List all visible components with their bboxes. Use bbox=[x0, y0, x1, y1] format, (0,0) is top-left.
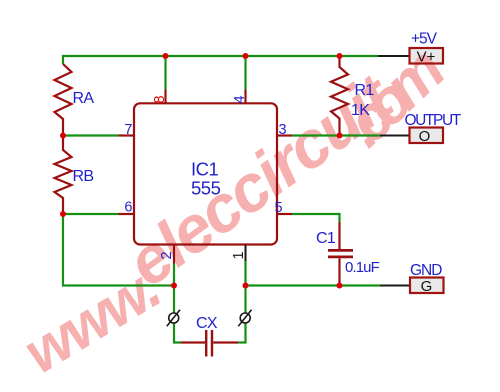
wire top rail V+ bbox=[63, 55, 378, 57]
IC U1 (IC1 555) body bbox=[134, 103, 277, 244]
svg-text:R1: R1 bbox=[355, 82, 375, 99]
junction RB pin6 bbox=[60, 211, 66, 217]
terminal V+ box bbox=[410, 48, 444, 66]
svg-text:O: O bbox=[419, 128, 431, 145]
resistor RA bbox=[55, 64, 72, 136]
svg-text:1: 1 bbox=[231, 251, 247, 259]
wire pin3 to R1 junction bbox=[292, 134, 380, 136]
watermark www.eleccircuit.com bbox=[12, 35, 457, 386]
svg-text:8: 8 bbox=[152, 95, 168, 103]
wire ground row bbox=[246, 284, 381, 286]
svg-text:IC1: IC1 bbox=[191, 159, 219, 180]
capacitor CX bbox=[181, 330, 238, 357]
terminal V+ box fill bbox=[410, 48, 444, 64]
pin 8 stub bbox=[164, 90, 166, 104]
pin 2 stub bbox=[173, 245, 175, 264]
wire pin2 column below terminal to CX bbox=[174, 323, 181, 343]
junction RA RB pin7 bbox=[60, 133, 66, 139]
wire left column bottom (RB to pin6 row corner) bbox=[63, 214, 174, 286]
pin 3 stub bbox=[277, 134, 292, 136]
svg-text:7: 7 bbox=[124, 122, 132, 138]
wire pin8 column bbox=[164, 55, 166, 90]
svg-text:OUTPUT: OUTPUT bbox=[405, 112, 462, 129]
junction top rail R1 bbox=[337, 53, 343, 59]
svg-text:CX: CX bbox=[196, 315, 218, 332]
svg-text:555: 555 bbox=[191, 178, 221, 199]
svg-text:6: 6 bbox=[124, 200, 132, 216]
svg-text:RA: RA bbox=[73, 90, 95, 107]
svg-text:2: 2 bbox=[159, 251, 175, 259]
junction top rail pin4 bbox=[243, 53, 249, 59]
wire pin1 column below terminal to CX bbox=[238, 323, 246, 343]
pin 1 stub (black) bbox=[245, 245, 247, 262]
wire pin7 to left column bbox=[63, 134, 119, 136]
wire pin6 to left column bbox=[63, 213, 119, 215]
terminal O box (OUTPUT) bbox=[410, 128, 444, 146]
svg-text:V+: V+ bbox=[417, 49, 436, 66]
wire pin2 column down bbox=[173, 264, 175, 314]
svg-text:RB: RB bbox=[73, 168, 94, 185]
junction R1 output bbox=[337, 133, 343, 139]
wire ground black segment bbox=[380, 285, 410, 287]
svg-text:4: 4 bbox=[232, 95, 248, 103]
terminal G box (GND) bbox=[410, 278, 444, 296]
svg-text:+5V: +5V bbox=[411, 31, 438, 48]
junction top rail pin8 bbox=[163, 53, 169, 59]
pin 5 stub bbox=[277, 213, 292, 215]
pin 4 stub bbox=[244, 90, 246, 104]
svg-text:3: 3 bbox=[279, 122, 287, 138]
wire pin5 to C1 column bbox=[292, 214, 340, 222]
svg-text:0.1uF: 0.1uF bbox=[345, 259, 380, 276]
resistor R1 bbox=[331, 55, 348, 136]
junction pin2 column bbox=[171, 283, 177, 289]
resistor RB bbox=[55, 136, 72, 215]
wire top rail black segment to V+ terminal bbox=[378, 55, 410, 57]
wire output black segment bbox=[380, 135, 410, 137]
terminal O box fill bbox=[410, 128, 444, 144]
svg-text:1K: 1K bbox=[351, 102, 370, 119]
junction pin1 column bbox=[243, 283, 249, 289]
connector terminal left (slashed circle) bbox=[167, 310, 180, 326]
connector terminal right (slashed circle) bbox=[238, 310, 251, 326]
pin 6 stub bbox=[119, 213, 135, 215]
svg-text:C1: C1 bbox=[316, 230, 336, 247]
capacitor C1 bbox=[328, 222, 353, 286]
wire left column top (rail to RA) bbox=[62, 55, 64, 64]
svg-text:5: 5 bbox=[275, 200, 283, 216]
svg-text:G: G bbox=[421, 278, 433, 295]
svg-text:GND: GND bbox=[410, 262, 442, 279]
junction C1 ground bbox=[337, 283, 343, 289]
pin 7 stub bbox=[119, 134, 135, 136]
wire pin1 column down bbox=[244, 261, 246, 313]
terminal G box fill bbox=[410, 278, 444, 294]
wire pin4 column bbox=[244, 55, 246, 90]
